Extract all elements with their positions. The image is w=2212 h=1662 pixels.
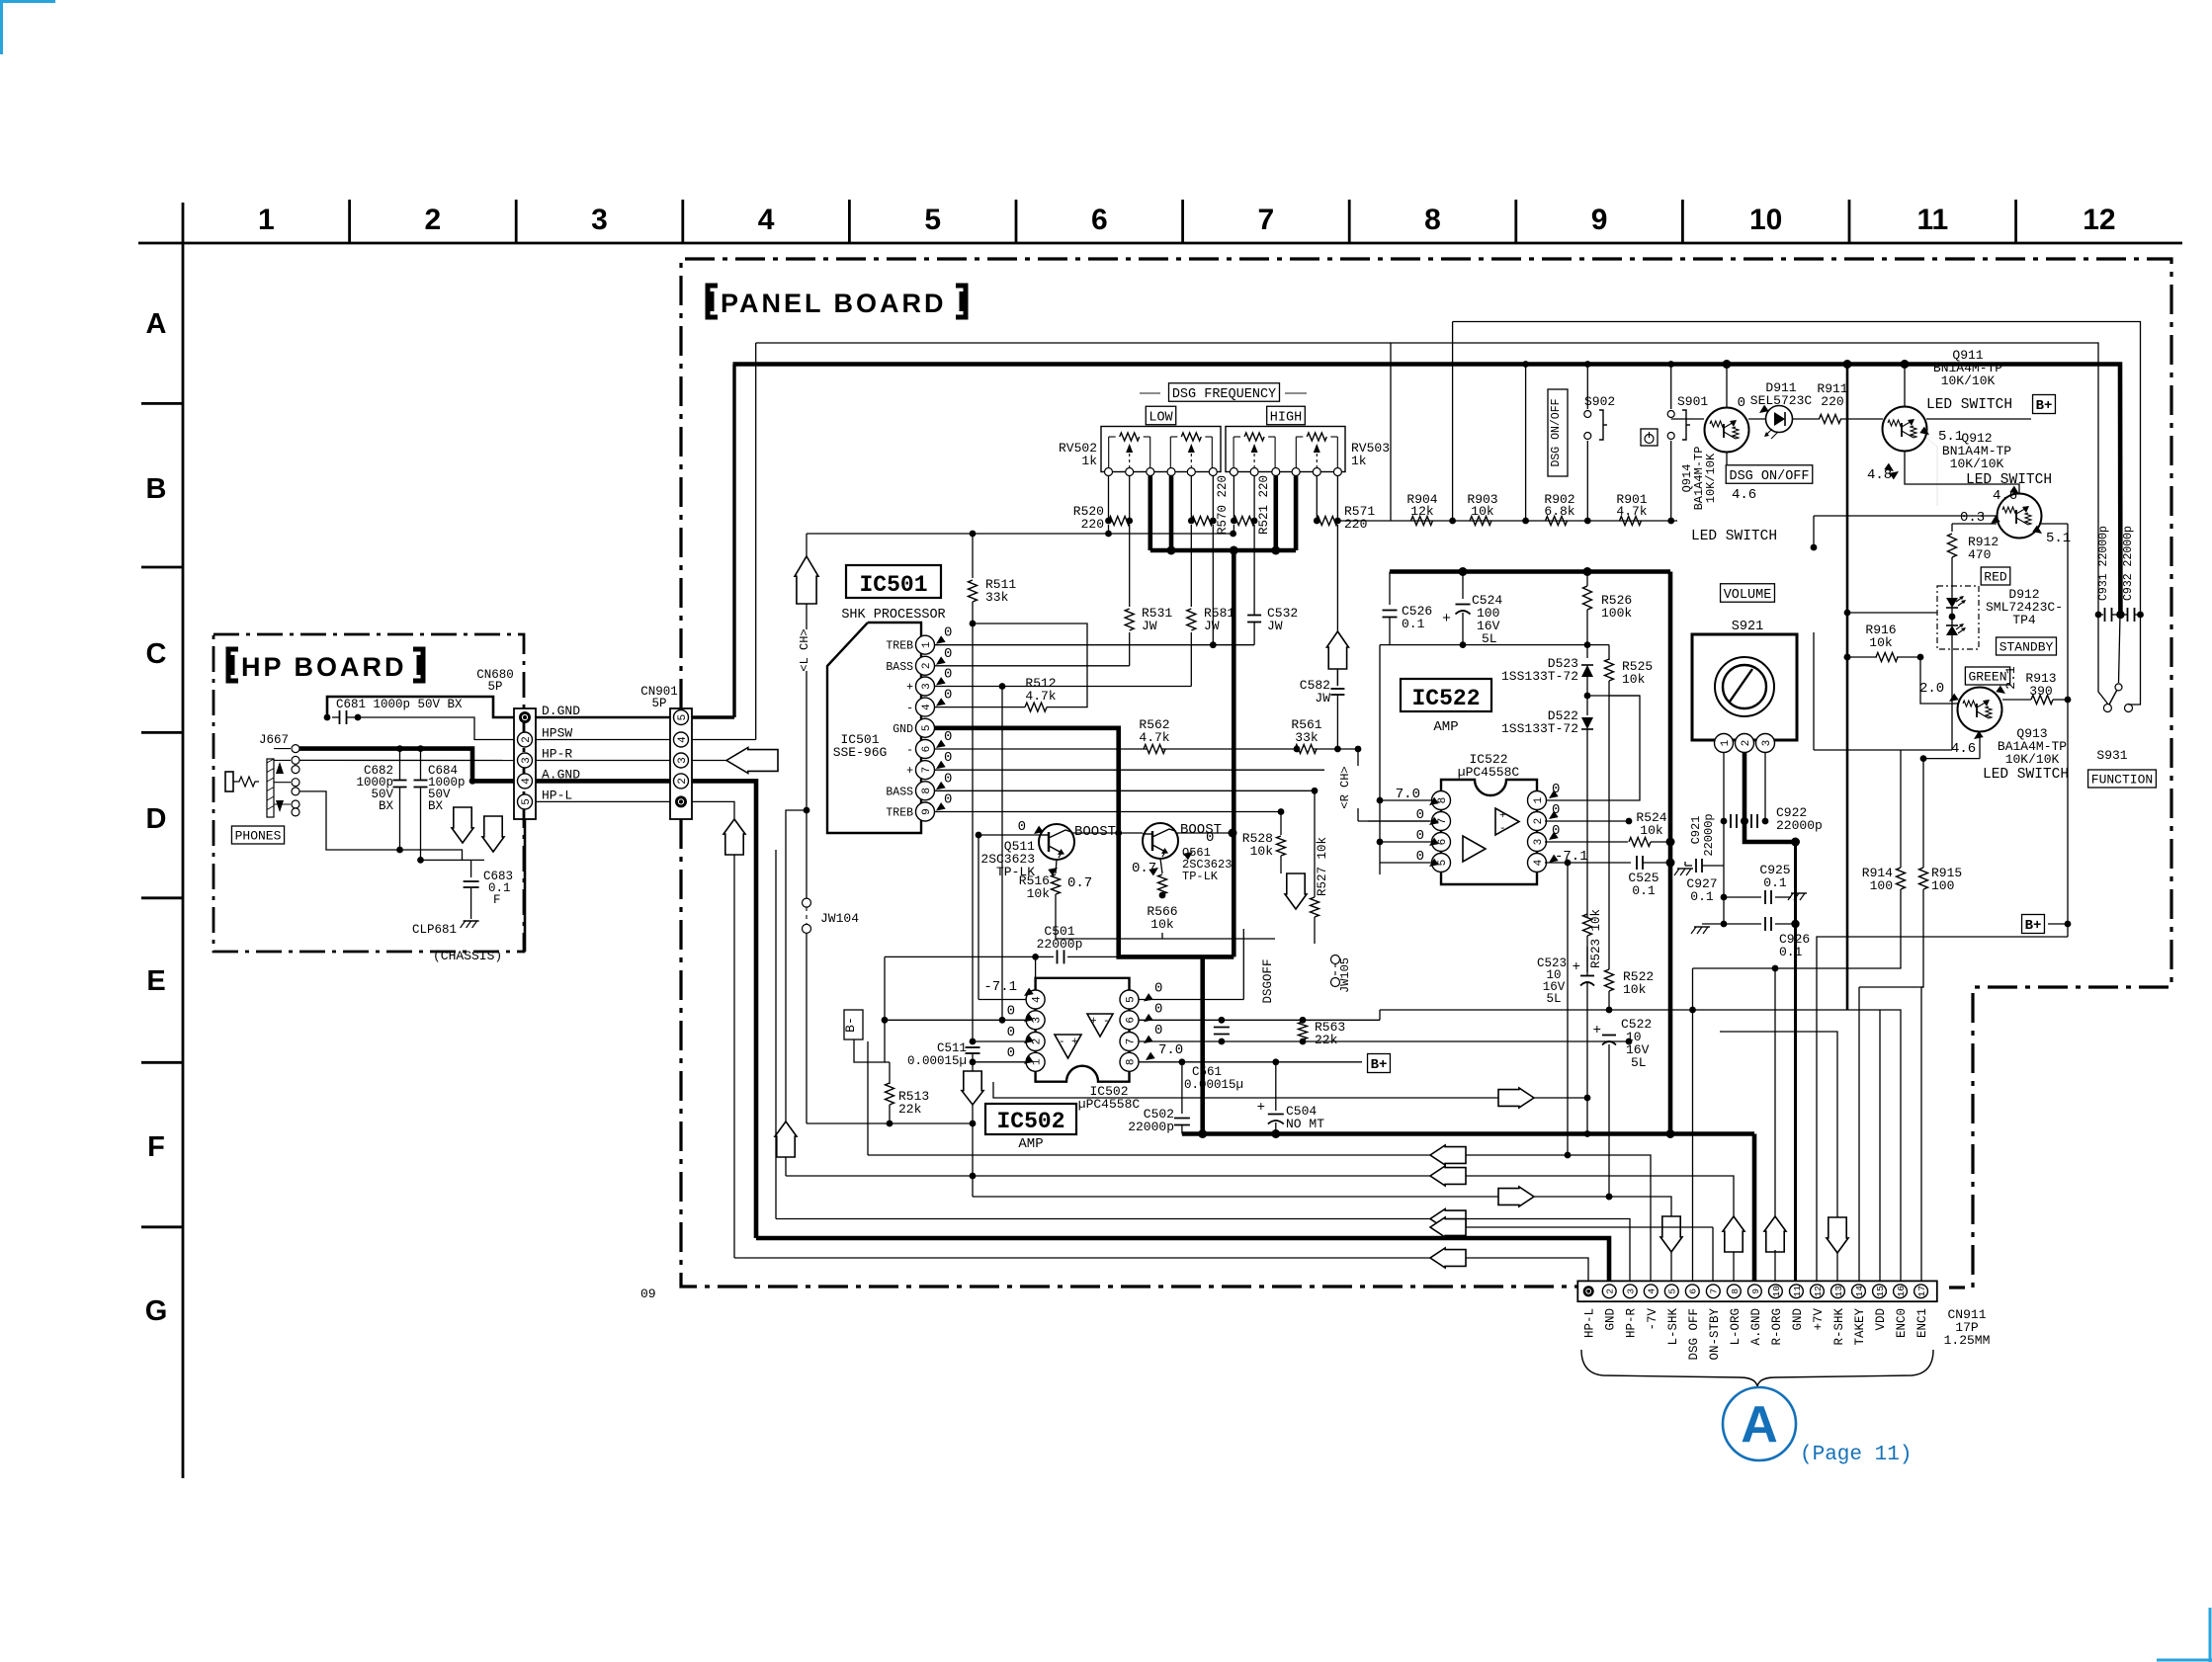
resistor R581 bbox=[1187, 609, 1196, 630]
svg-text:ENC1: ENC1 bbox=[1915, 1308, 1929, 1338]
wire HPSW from C681 bbox=[358, 717, 514, 740]
svg-text:6: 6 bbox=[921, 746, 933, 753]
svg-text:0.00015µ: 0.00015µ bbox=[907, 1054, 967, 1068]
svg-text:8: 8 bbox=[1424, 204, 1441, 236]
resistor R521 bbox=[1234, 517, 1255, 526]
up arrow L CH bbox=[795, 556, 818, 604]
IC522 pin 5 bbox=[1432, 854, 1451, 873]
svg-text:4: 4 bbox=[521, 778, 533, 785]
svg-text:0: 0 bbox=[1007, 1045, 1015, 1061]
svg-text:-: - bbox=[1103, 1016, 1110, 1028]
resistor R522 bbox=[1605, 969, 1614, 991]
svg-text:100: 100 bbox=[1870, 878, 1893, 893]
B+ box top bbox=[2033, 395, 2056, 414]
capacitor C501 bbox=[1057, 950, 1059, 963]
bus A drop to CN901 pin4 bbox=[755, 343, 757, 740]
svg-text:9: 9 bbox=[1750, 1288, 1761, 1294]
svg-text:10K/10K: 10K/10K bbox=[1941, 374, 1996, 388]
IC502 pin1 wire bbox=[973, 1061, 1026, 1063]
B- wire bbox=[854, 1039, 885, 1062]
IC501 pin 8 BASS bbox=[916, 782, 935, 800]
svg-text:15: 15 bbox=[1875, 1286, 1886, 1297]
svg-text:9: 9 bbox=[921, 808, 933, 815]
svg-text:HP BOARD: HP BOARD bbox=[241, 652, 407, 682]
svg-text:7: 7 bbox=[921, 767, 933, 774]
svg-text:PHONES: PHONES bbox=[235, 829, 282, 844]
IC522 pin 7 bbox=[1432, 812, 1451, 831]
RED box bbox=[1981, 567, 2010, 585]
wire D523 junction to pin1 bbox=[1545, 696, 1640, 800]
capacitor C524 bbox=[1462, 572, 1464, 600]
jumper JW104 bbox=[803, 898, 811, 907]
svg-text:8: 8 bbox=[1437, 797, 1449, 804]
pin14 vertical bbox=[1858, 987, 1860, 1282]
svg-text:470: 470 bbox=[1968, 547, 1991, 562]
svg-text:BX: BX bbox=[428, 799, 444, 813]
svg-text:C681 1000p 50V BX: C681 1000p 50V BX bbox=[336, 698, 463, 711]
svg-text:5: 5 bbox=[924, 204, 941, 236]
C501 line bbox=[885, 956, 1054, 957]
resistor R912 bbox=[1952, 523, 1997, 525]
svg-text:IC522: IC522 bbox=[1411, 686, 1480, 711]
capacitor C921 bbox=[1730, 814, 1732, 828]
resistor R904 bbox=[1411, 517, 1433, 526]
svg-text:5: 5 bbox=[921, 724, 933, 731]
R566 loop wiring bbox=[1056, 894, 1275, 939]
transistor Q914 bbox=[1726, 365, 1728, 408]
svg-text:4: 4 bbox=[1032, 996, 1044, 1003]
svg-text:22k: 22k bbox=[898, 1102, 922, 1117]
svg-text:JW104: JW104 bbox=[820, 911, 859, 926]
wire C501 left leg bbox=[885, 956, 890, 1062]
svg-text:GND: GND bbox=[893, 723, 913, 736]
svg-text:VOLUME: VOLUME bbox=[1724, 588, 1772, 603]
svg-text:F: F bbox=[147, 1131, 165, 1163]
wire CN901 pin4 right bbox=[692, 739, 756, 741]
switch S901 vertical bbox=[1670, 365, 1672, 410]
CN911 pin 3 bbox=[1623, 1285, 1637, 1298]
column ticks bbox=[348, 200, 351, 243]
svg-text:10k: 10k bbox=[1869, 635, 1893, 650]
svg-text:5: 5 bbox=[1125, 996, 1137, 1003]
svg-text:0: 0 bbox=[944, 750, 952, 766]
svg-text:C: C bbox=[146, 638, 167, 670]
svg-text:13: 13 bbox=[1833, 1286, 1844, 1297]
wire jack to HP-R thick bbox=[299, 749, 514, 782]
svg-text:3: 3 bbox=[1626, 1288, 1637, 1294]
feeder y1111 right arrow bbox=[993, 1082, 1587, 1098]
svg-text:220: 220 bbox=[1344, 517, 1367, 532]
capacitor C526 bbox=[1389, 572, 1391, 606]
IC501 pin 5 GND bbox=[916, 718, 935, 737]
svg-text:2: 2 bbox=[921, 662, 933, 669]
x984 down to feeder bbox=[972, 1053, 974, 1072]
svg-text:1SS133T-72: 1SS133T-72 bbox=[1501, 721, 1578, 736]
IC502 pin5 wire bbox=[1139, 999, 1243, 1001]
pin13 vertical + down arrow bbox=[1720, 1032, 1837, 1217]
svg-text:7: 7 bbox=[1125, 1039, 1137, 1045]
svg-text:4: 4 bbox=[758, 204, 775, 236]
vertical x990 to IC502 pin4 bbox=[978, 835, 979, 1000]
svg-text:0.1: 0.1 bbox=[1632, 883, 1656, 898]
CN911 pin 10 bbox=[1768, 1285, 1782, 1298]
pin10 vertical + up arrow bbox=[1774, 968, 1776, 1216]
chassis ground CLP681 bbox=[464, 920, 479, 922]
LED switch block frame wires bbox=[1926, 438, 1937, 506]
svg-text:10: 10 bbox=[1771, 1286, 1782, 1297]
svg-text:R521 220: R521 220 bbox=[1257, 475, 1271, 535]
CN911 pin 7 bbox=[1706, 1285, 1720, 1298]
bus thin A y=347 bbox=[756, 343, 2098, 615]
svg-text:L-SHK: L-SHK bbox=[1666, 1308, 1680, 1346]
transistor Q511 bbox=[978, 834, 1039, 836]
svg-text:J667: J667 bbox=[259, 733, 289, 747]
thick bus IC522 top bbox=[1390, 569, 1670, 574]
svg-text:A: A bbox=[1741, 1396, 1778, 1454]
svg-text:D: D bbox=[146, 803, 167, 835]
svg-text:3: 3 bbox=[1533, 839, 1545, 846]
row junction dots bbox=[1449, 518, 1456, 525]
IC501 pin 4 - bbox=[916, 698, 935, 716]
svg-text:HIGH: HIGH bbox=[1270, 410, 1302, 425]
IC502 pin 4 bbox=[1026, 990, 1045, 1009]
CN911 pin 5 bbox=[1664, 1285, 1678, 1298]
svg-text:2: 2 bbox=[521, 736, 533, 743]
IC502 top wire to C501 bbox=[1035, 956, 1037, 977]
svg-text:L-ORG: L-ORG bbox=[1729, 1308, 1743, 1346]
IC522 pin 8 bbox=[1432, 791, 1451, 810]
svg-text:1: 1 bbox=[258, 204, 275, 236]
svg-text:+: + bbox=[1593, 1023, 1601, 1039]
svg-text:5L: 5L bbox=[1546, 992, 1561, 1006]
CN911 pin 1 bbox=[1583, 1286, 1594, 1296]
STANDBY box bbox=[1997, 637, 2057, 655]
brace under CN911 bbox=[1581, 1350, 1933, 1386]
svg-text:-: - bbox=[1499, 823, 1506, 835]
IC502 pin6 wire bbox=[1139, 1019, 1380, 1021]
B+ box pin8 bbox=[1368, 1054, 1391, 1073]
IC522 label box bbox=[1401, 679, 1491, 711]
IC522 opamp triangles bbox=[1495, 808, 1519, 835]
svg-text:<R CH>: <R CH> bbox=[1338, 766, 1352, 808]
R531 R581 verticals bbox=[1129, 525, 1131, 607]
svg-text:F: F bbox=[493, 893, 501, 907]
svg-text:22000p: 22000p bbox=[1037, 937, 1083, 952]
svg-text:5: 5 bbox=[521, 798, 533, 805]
IC501 pin2 wire bbox=[934, 665, 1130, 667]
svg-text:C931 22000p: C931 22000p bbox=[2097, 526, 2110, 601]
IC502 pin3 wire bbox=[885, 1019, 1026, 1021]
svg-text:ENC0: ENC0 bbox=[1895, 1308, 1909, 1338]
svg-text:22000p: 22000p bbox=[1702, 813, 1716, 856]
PANEL BOARD title bbox=[708, 286, 718, 317]
CN911 pin 8 bbox=[1727, 1285, 1741, 1298]
svg-text:G: G bbox=[145, 1295, 168, 1327]
jumper JW105 bbox=[1331, 956, 1340, 964]
svg-text:10: 10 bbox=[1749, 204, 1782, 236]
svg-text:4: 4 bbox=[677, 736, 689, 743]
resistor R525 bbox=[1605, 659, 1614, 681]
thick bottom bus bbox=[1182, 1131, 1754, 1136]
svg-text:0: 0 bbox=[944, 646, 952, 662]
svg-text:4: 4 bbox=[1647, 1288, 1658, 1294]
svg-text:LED SWITCH: LED SWITCH bbox=[1691, 529, 1777, 544]
svg-text:DSG ON/OFF: DSG ON/OFF bbox=[1550, 398, 1563, 466]
wire A.GND thick bbox=[536, 779, 670, 784]
IC501 pin 2 BASS bbox=[916, 656, 935, 675]
feeder y1256 thick to pin2 bbox=[756, 1238, 1609, 1282]
svg-text:0: 0 bbox=[944, 729, 952, 745]
svg-text:NO MT: NO MT bbox=[1286, 1117, 1324, 1131]
phone jack J667 bbox=[225, 772, 233, 791]
svg-text:R527 10k: R527 10k bbox=[1316, 837, 1329, 896]
IC522 pin2 wire bbox=[1545, 820, 1629, 822]
thick drop from C501 bus bbox=[1200, 956, 1205, 1133]
svg-text:220: 220 bbox=[1821, 394, 1843, 409]
svg-text:AMP: AMP bbox=[1433, 719, 1458, 735]
LOW label bbox=[1146, 406, 1175, 425]
IC501 pin6 wire + R562 R561 bbox=[934, 748, 1148, 750]
svg-text:4.7k: 4.7k bbox=[1616, 504, 1647, 519]
wire y1022 bbox=[1380, 1009, 1847, 1011]
svg-text:HP-R: HP-R bbox=[542, 747, 572, 762]
svg-text:LED SWITCH: LED SWITCH bbox=[1983, 767, 2069, 783]
feeder y1137 R513 line bbox=[807, 1122, 973, 1124]
D912 feed wire bbox=[1847, 612, 1937, 614]
svg-text:11: 11 bbox=[1916, 204, 1948, 236]
wire CN901 pin2 thick right bbox=[692, 781, 756, 1238]
svg-text:12: 12 bbox=[1813, 1286, 1824, 1297]
IC501 pin4 wire + R512 bbox=[934, 706, 1025, 708]
svg-text:BASS: BASS bbox=[886, 786, 913, 798]
drop t12 R CH bbox=[1336, 525, 1338, 686]
trimmer box HIGH bbox=[1226, 427, 1345, 472]
page corner mark bottom-right (blue) bbox=[2157, 1659, 2212, 1662]
svg-text:2: 2 bbox=[1533, 818, 1545, 825]
switch S931 bbox=[2103, 705, 2111, 712]
IC502 pin 5 bbox=[1120, 990, 1139, 1009]
resistor R513 bbox=[889, 1062, 891, 1084]
wire HP-R bbox=[536, 760, 670, 762]
svg-text:LED SWITCH: LED SWITCH bbox=[1966, 472, 2052, 488]
resistor R903 bbox=[1470, 517, 1491, 526]
svg-text:5: 5 bbox=[677, 714, 689, 721]
svg-text:SEL5723C: SEL5723C bbox=[1750, 393, 1813, 408]
svg-text:S901: S901 bbox=[1677, 394, 1708, 409]
IC522 pin4 drop to feeder bbox=[1567, 863, 1569, 1155]
svg-text:S921: S921 bbox=[1732, 620, 1763, 634]
IC522 pin3 wire + R524 bbox=[1545, 841, 1628, 843]
thick vertical right of IC522 bbox=[1668, 572, 1673, 1134]
svg-text:BASS: BASS bbox=[886, 661, 913, 674]
svg-text:E: E bbox=[146, 965, 165, 997]
svg-text:6.8k: 6.8k bbox=[1544, 504, 1574, 519]
svg-text:TREB: TREB bbox=[886, 807, 913, 820]
transistor Q912 bbox=[1998, 494, 2042, 539]
svg-text:GREEN: GREEN bbox=[1968, 670, 2006, 685]
CN911 pin 12 bbox=[1811, 1285, 1825, 1298]
wire CN680 pin5 down bbox=[524, 819, 527, 952]
pin12 vertical from B+ wire bbox=[1817, 937, 2068, 1282]
IC501 pin1 wire bbox=[934, 644, 1254, 646]
svg-text:2: 2 bbox=[1605, 1288, 1616, 1294]
svg-text:0: 0 bbox=[1007, 1003, 1015, 1019]
up arrow R CH bbox=[1326, 631, 1348, 669]
svg-text:+: + bbox=[1573, 959, 1580, 975]
svg-text:+: + bbox=[1442, 611, 1451, 627]
feeder y1190 to pin8 bbox=[786, 1176, 1734, 1282]
svg-text:µPC4558C: µPC4558C bbox=[1458, 765, 1520, 780]
svg-text:10K/10K: 10K/10K bbox=[1950, 457, 2004, 471]
svg-text:0.00015µ: 0.00015µ bbox=[1184, 1078, 1243, 1092]
R523 rotated bbox=[1583, 914, 1592, 936]
resistor R561 bbox=[1295, 745, 1317, 754]
svg-text:IC502: IC502 bbox=[996, 1109, 1064, 1134]
IC502 pin2 wire bbox=[973, 1040, 1026, 1042]
IC522 body bbox=[1441, 780, 1537, 884]
R915 vertical bbox=[1922, 759, 1924, 868]
svg-text:1: 1 bbox=[921, 641, 933, 648]
B- box rotated bbox=[844, 1010, 863, 1039]
IC502 pin8 wire bbox=[1139, 1061, 1362, 1063]
capacitor C532 bbox=[1253, 525, 1255, 615]
svg-text:DSGOFF: DSGOFF bbox=[1261, 958, 1275, 1003]
svg-text:22000p: 22000p bbox=[1776, 818, 1823, 833]
feeder y1273 to pin1 bbox=[734, 1258, 1588, 1282]
CN911 pin 4 bbox=[1644, 1285, 1658, 1298]
IC501 pin 7 + bbox=[916, 761, 935, 780]
feeder y1211 to pin5 bbox=[973, 1197, 1671, 1282]
svg-text:10k: 10k bbox=[1150, 917, 1174, 932]
svg-text:GND: GND bbox=[1791, 1308, 1805, 1331]
resistor R526 bbox=[1586, 572, 1588, 587]
wire jack lower bus bbox=[299, 791, 484, 861]
resistor R531 bbox=[1125, 609, 1134, 630]
svg-text:6: 6 bbox=[1091, 204, 1108, 236]
svg-text:+7V: +7V bbox=[1812, 1308, 1826, 1331]
svg-text:0.1: 0.1 bbox=[1690, 889, 1714, 904]
svg-text:-7V: -7V bbox=[1646, 1308, 1659, 1331]
svg-text:7: 7 bbox=[1437, 818, 1449, 825]
bus thick B y=368 bbox=[733, 365, 2121, 616]
capacitor C561 bbox=[1214, 1027, 1230, 1029]
diode D523 bbox=[1581, 665, 1593, 677]
IC522 pin 6 bbox=[1432, 833, 1451, 852]
svg-text:SSE-96G: SSE-96G bbox=[833, 745, 888, 760]
svg-text:1k: 1k bbox=[1351, 454, 1367, 468]
svg-text:TP4: TP4 bbox=[2012, 613, 2036, 627]
feeder y1233 to pin3 bbox=[776, 1219, 1630, 1283]
C926 bbox=[1702, 923, 1761, 925]
GREEN box bbox=[1965, 667, 2009, 685]
CN911 pin 17 bbox=[1914, 1285, 1928, 1298]
terminal drops thick bbox=[1149, 476, 1153, 551]
IC501 pin 3 + bbox=[916, 677, 935, 696]
wire HP-L bbox=[536, 800, 670, 802]
svg-text:5P: 5P bbox=[487, 680, 502, 694]
R511 vertical feeder bbox=[972, 534, 974, 578]
trimmer terminals bbox=[1105, 468, 1113, 476]
svg-text:1: 1 bbox=[1533, 796, 1545, 803]
IC502 pin 8 bbox=[1120, 1052, 1139, 1071]
svg-text:2.0: 2.0 bbox=[1919, 681, 1944, 697]
IC502 pin 1 bbox=[1026, 1052, 1045, 1071]
switch S902 vertical bbox=[1586, 365, 1588, 410]
down arrow R528 bbox=[1285, 873, 1307, 909]
svg-text:RED: RED bbox=[1984, 570, 2007, 585]
svg-text:0.7: 0.7 bbox=[1067, 875, 1092, 891]
svg-text:(CHASSIS): (CHASSIS) bbox=[433, 949, 502, 963]
wires C523/R522 down bbox=[1608, 696, 1610, 969]
svg-text:33k: 33k bbox=[1295, 730, 1319, 745]
drop t6 to pin1 bbox=[1212, 525, 1214, 645]
svg-text:HP-R: HP-R bbox=[1625, 1308, 1639, 1339]
svg-text:3: 3 bbox=[677, 757, 689, 764]
IC501 pin 9 TREB bbox=[916, 802, 935, 821]
IC501 body bbox=[827, 623, 921, 833]
svg-text:6: 6 bbox=[1437, 839, 1449, 846]
up arrow right of CN901 bbox=[723, 819, 745, 855]
transistor Q911 bbox=[1904, 365, 1906, 407]
svg-text:S902: S902 bbox=[1584, 394, 1615, 409]
svg-text:0: 0 bbox=[944, 792, 952, 808]
HIGH label bbox=[1267, 406, 1306, 425]
wire jack tip to HPSW bbox=[299, 759, 514, 761]
wire CN901 pin5 right bbox=[692, 715, 734, 718]
terminal drops thin bbox=[1108, 476, 1110, 522]
svg-text:LOW: LOW bbox=[1149, 410, 1173, 425]
svg-text:10k: 10k bbox=[1622, 672, 1646, 687]
svg-text:C511: C511 bbox=[937, 1041, 967, 1055]
Q911 collector wire bbox=[1926, 418, 2031, 420]
svg-text:HPSW: HPSW bbox=[542, 726, 572, 741]
connector CN901 bbox=[670, 708, 692, 819]
VOLUME box bbox=[1721, 584, 1775, 603]
svg-text:12: 12 bbox=[2083, 204, 2115, 236]
svg-text:10K/10K: 10K/10K bbox=[2005, 752, 2060, 767]
svg-text:PANEL BOARD: PANEL BOARD bbox=[721, 289, 947, 318]
svg-text:17: 17 bbox=[1916, 1286, 1927, 1296]
svg-text:S931: S931 bbox=[2096, 748, 2127, 763]
IC522 pin 3 bbox=[1528, 833, 1547, 852]
svg-text:3: 3 bbox=[1761, 740, 1773, 747]
S921 pin wires down bbox=[1723, 752, 1725, 821]
R914 vertical bbox=[1900, 750, 1902, 868]
S931 middle drop bbox=[2119, 615, 2121, 683]
svg-text:5: 5 bbox=[1437, 860, 1449, 867]
Q511 emitter + R516 bbox=[1056, 860, 1057, 873]
svg-text:12k: 12k bbox=[1410, 504, 1434, 519]
pin7 vertical bbox=[1712, 1227, 1714, 1282]
svg-text:JW: JW bbox=[1142, 619, 1157, 633]
Q511 collector wire to Q561 base bbox=[1072, 832, 1143, 834]
feeder vertical x878 bbox=[867, 1041, 869, 1155]
IC522 pin 4 bbox=[1528, 854, 1547, 873]
J667 contact leads bbox=[274, 748, 291, 750]
svg-text:FUNCTION: FUNCTION bbox=[2091, 773, 2153, 788]
pin6 vertical bbox=[1692, 968, 1694, 1282]
svg-text:JW: JW bbox=[1315, 691, 1330, 706]
IC501 pin 6 - bbox=[916, 740, 935, 759]
svg-text:220: 220 bbox=[1081, 517, 1104, 532]
svg-text:TP-LK: TP-LK bbox=[1182, 870, 1219, 883]
resistor R512 bbox=[1025, 703, 1047, 711]
IC502 pin 6 bbox=[1120, 1011, 1139, 1030]
svg-text:7: 7 bbox=[1258, 204, 1275, 236]
HP BOARD dashed outline bbox=[213, 634, 524, 952]
svg-text:+: + bbox=[906, 765, 913, 778]
LED D912 dash box bbox=[1937, 586, 1979, 649]
